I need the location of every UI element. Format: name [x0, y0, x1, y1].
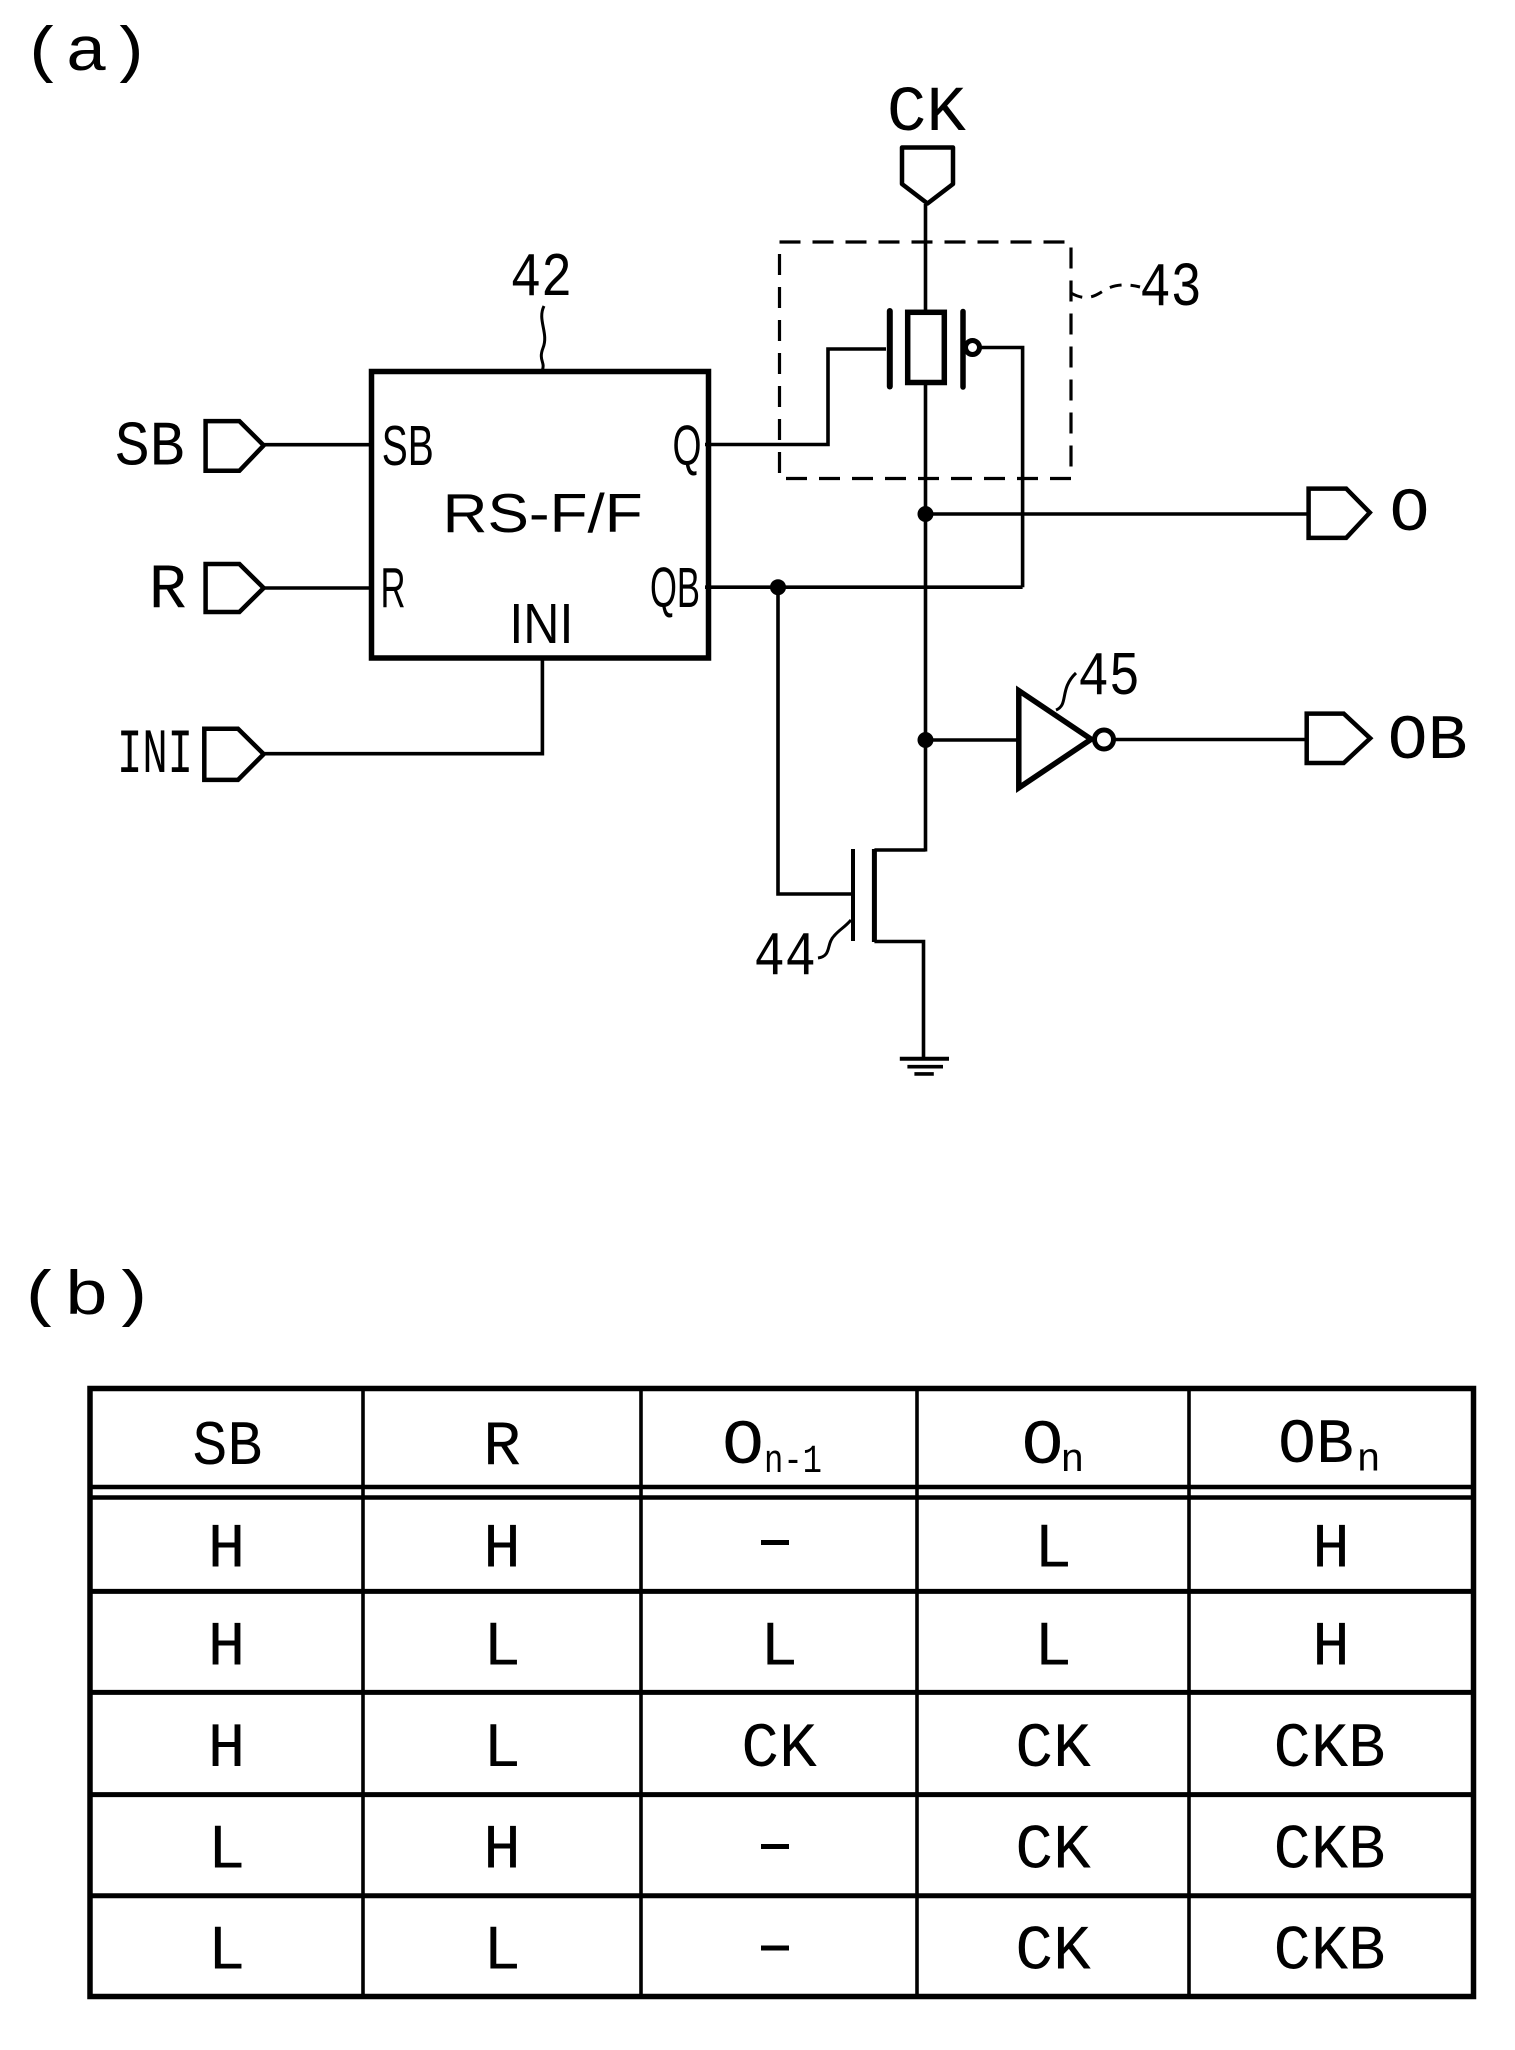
svg-text:43: 43 [1140, 253, 1202, 324]
svg-text:CK: CK [1015, 1714, 1091, 1785]
terminal R (input, pointing right) [206, 564, 264, 612]
leader line to 42 [541, 306, 544, 371]
wire OB output [1114, 738, 1307, 742]
svg-text:L: L [483, 1714, 521, 1785]
table row 4 dash [761, 1844, 789, 1849]
svg-text:L: L [208, 1917, 246, 1988]
wire CK vertical (terminal to transmission gate) [924, 204, 928, 312]
wire QB branch down to NMOS gate [778, 587, 853, 894]
svg-text:R: R [381, 556, 406, 620]
ground symbol [900, 1059, 949, 1074]
inverter 45 output bubble [1095, 730, 1114, 749]
table header O n [1022, 1411, 1085, 1484]
wire Q output to NMOS gate of transmission gate [705, 349, 886, 445]
svg-text:(a): (a) [22, 18, 151, 89]
svg-text:CK: CK [1015, 1816, 1091, 1887]
svg-text:INI: INI [509, 592, 573, 656]
svg-text:H: H [208, 1515, 246, 1586]
table row 1: H H - L H [208, 1515, 1350, 1586]
table row 4: L H - CK CKB [208, 1816, 1386, 1887]
leader line to 45 [1056, 673, 1076, 710]
svg-text:44: 44 [754, 922, 816, 993]
table header O n-1 [722, 1411, 822, 1485]
table column line 4 [1187, 1389, 1191, 1997]
svg-text:H: H [483, 1816, 521, 1887]
svg-text:O: O [1022, 1411, 1064, 1482]
table header double rule upper [90, 1485, 1474, 1490]
table row 2: H L L L H [208, 1613, 1350, 1684]
transmission gate 43: PMOS gate bubble [966, 341, 980, 355]
terminal SB (input, pointing right) [206, 421, 264, 471]
table row line 3 [90, 1792, 1474, 1797]
dashed box 43 (clocked pass-gate block) [780, 242, 1072, 479]
svg-text:H: H [1312, 1515, 1350, 1586]
table column line 1 [361, 1389, 365, 1997]
truth table (b) [90, 1389, 1474, 1997]
svg-text:INI: INI [117, 720, 193, 791]
svg-text:QB: QB [650, 556, 700, 620]
transmission gate 43: channel rectangle [908, 312, 945, 382]
svg-text:L: L [1034, 1613, 1072, 1684]
wire inverter input [926, 738, 1020, 742]
RS flip-flop block 42 [372, 372, 709, 659]
svg-text:L: L [208, 1816, 246, 1887]
svg-text:SB: SB [192, 1412, 262, 1483]
svg-text:L: L [483, 1613, 521, 1684]
table row line 1 [90, 1589, 1474, 1594]
transistor 44 gate bar [851, 849, 855, 941]
svg-text:CKB: CKB [1274, 1714, 1386, 1785]
svg-text:CK: CK [1015, 1917, 1091, 1988]
leader line to 44 [818, 920, 851, 958]
svg-text:CKB: CKB [1274, 1917, 1386, 1988]
inverter 45 triangle [1019, 691, 1091, 788]
terminal CK (input, pointing down) [902, 148, 953, 204]
svg-text:CK: CK [741, 1714, 817, 1785]
wire PMOS gate bubble to QB net [981, 348, 1023, 588]
table row 5 dash [761, 1946, 789, 1951]
svg-text:n: n [1357, 1439, 1381, 1484]
svg-text:OB: OB [1278, 1410, 1354, 1481]
svg-text:R: R [149, 555, 187, 626]
transistor 44 drain wire [874, 848, 925, 852]
svg-text:L: L [483, 1917, 521, 1988]
wire SB input [264, 443, 374, 447]
table header OB n [1278, 1410, 1381, 1484]
node QB branch (junction dot on QB line) [770, 579, 786, 595]
svg-text:42: 42 [510, 243, 572, 314]
svg-text:H: H [208, 1613, 246, 1684]
terminal INI (input, pointing right) [204, 729, 263, 780]
table row line 2 [90, 1690, 1474, 1695]
svg-text:n: n [1060, 1439, 1084, 1484]
wire O output [926, 512, 1309, 516]
svg-text:O: O [1390, 480, 1430, 549]
node inverter input (junction dot on CK line) [918, 732, 934, 748]
svg-text:H: H [208, 1714, 246, 1785]
svg-text:H: H [1312, 1613, 1350, 1684]
wire QB output [705, 585, 1023, 589]
wire CK vertical (transmission gate down past O node, QB crossing, to NMOS drain) [924, 383, 928, 852]
table row 1 dash [761, 1540, 789, 1545]
transistor 44 channel bar [872, 849, 877, 942]
transmission gate 43: NMOS gate bar (left) [887, 311, 893, 387]
svg-text:CK: CK [887, 78, 967, 150]
table header double rule lower [90, 1495, 1474, 1500]
leader line to 43 [1071, 285, 1140, 298]
table row 5: L L - CK CKB [208, 1917, 1386, 1988]
svg-text:O: O [722, 1411, 764, 1482]
wire INI input [264, 658, 542, 754]
svg-text:L: L [760, 1613, 798, 1684]
table column line 2 [639, 1389, 643, 1997]
table outer border [90, 1389, 1474, 1997]
svg-text:CKB: CKB [1274, 1816, 1386, 1887]
transmission gate 43: PMOS gate bar (right) [960, 312, 966, 388]
svg-text:RS-F/F: RS-F/F [443, 482, 643, 544]
svg-text:SB: SB [382, 414, 434, 478]
svg-text:L: L [1034, 1515, 1072, 1586]
svg-text:(b): (b) [18, 1262, 155, 1333]
svg-text:OB: OB [1388, 706, 1468, 777]
svg-text:n-1: n-1 [764, 1440, 822, 1485]
table row line 4 [90, 1893, 1474, 1898]
table row 3: H L CK CK CKB [208, 1714, 1386, 1785]
transistor 44 source wire [874, 942, 923, 1058]
node O (junction dot on CK line) [918, 506, 934, 522]
terminal O (output, pointing right) [1309, 489, 1370, 538]
svg-text:Q: Q [673, 414, 702, 478]
terminal OB (output, pointing right) [1307, 714, 1371, 763]
svg-text:SB: SB [115, 413, 185, 484]
svg-text:R: R [483, 1412, 521, 1483]
wire R input [264, 586, 374, 590]
svg-text:H: H [483, 1515, 521, 1586]
table column line 3 [915, 1389, 919, 1997]
svg-text:45: 45 [1078, 642, 1140, 713]
